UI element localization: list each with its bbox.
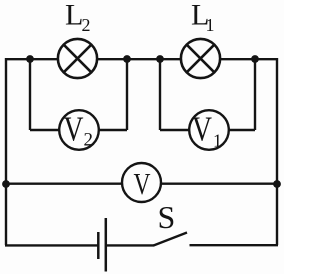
battery: long plate (positive) — [105, 218, 108, 272]
voltmeter V (main) — [122, 163, 161, 202]
voltmeter V1 — [189, 109, 229, 150]
wire: right vertical side — [276, 58, 278, 245]
label L2 — [65, 0, 91, 35]
wire: bottom left (to battery) — [5, 244, 98, 246]
svg-text:S: S — [158, 199, 176, 235]
wire: left vertical side — [5, 58, 7, 245]
wire: middle voltmeter bus — [6, 182, 277, 184]
battery: short plate (negative) — [97, 232, 100, 259]
svg-text:1: 1 — [206, 15, 215, 35]
wire: V1 horizontal leads — [160, 129, 255, 131]
junction node: top wire / V1 right — [251, 55, 259, 63]
wire: V2 right vertical drop — [126, 59, 128, 130]
junction node: top wire / V2 left — [26, 55, 34, 63]
svg-text:2: 2 — [82, 15, 91, 35]
svg-text:V: V — [64, 109, 84, 148]
wire: V2 horizontal leads — [30, 129, 127, 131]
svg-text:1: 1 — [213, 130, 222, 150]
wire: top horizontal bus — [6, 58, 277, 60]
wire: V1 right vertical drop — [254, 59, 256, 130]
voltmeter V2 — [59, 109, 99, 150]
switch blade — [154, 233, 188, 246]
wire: switch to right side — [190, 244, 279, 246]
wire: V1 left vertical drop — [159, 59, 161, 130]
label L1 — [191, 0, 215, 35]
junction node: right side / V bus — [273, 180, 281, 188]
svg-text:V: V — [134, 166, 151, 201]
junction node: top wire / V1 left — [156, 55, 164, 63]
wire: V2 left vertical drop — [29, 59, 31, 130]
lamp L2 — [58, 39, 97, 78]
wire: battery to switch — [106, 244, 154, 246]
junction node: top wire / V2 right — [123, 55, 131, 63]
svg-text:2: 2 — [84, 129, 94, 150]
svg-text:V: V — [192, 109, 212, 148]
lamp L1 — [181, 39, 220, 78]
junction node: left side / V bus — [2, 180, 10, 188]
